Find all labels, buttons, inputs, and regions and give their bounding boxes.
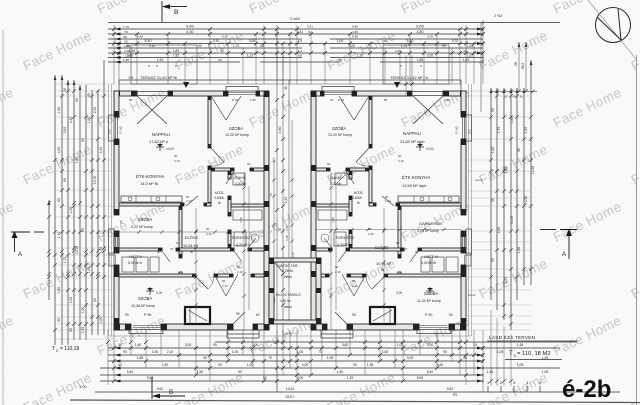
top band ticks xyxy=(112,27,116,31)
entry wc block xyxy=(185,307,210,324)
door swings xyxy=(211,148,224,162)
glazing triangle bottom szoba xyxy=(214,274,226,296)
window left nappali xyxy=(109,115,115,141)
eaves outline bottom xyxy=(109,335,227,337)
interior wall bath cluster vertical xyxy=(228,171,231,179)
section marker A right xyxy=(540,229,556,231)
interior chain right elosz xyxy=(383,208,385,322)
interior wall szoba922 right xyxy=(179,206,182,258)
big glazing triangles top szoba xyxy=(211,96,226,120)
right band horizontal extensions xyxy=(466,90,531,92)
window left hazth xyxy=(109,253,114,266)
north circle symbol xyxy=(596,8,631,43)
kitchen counter xyxy=(121,196,182,202)
terrace outline left xyxy=(131,45,197,84)
top dimension band lines xyxy=(108,22,560,24)
scale bar bottom right xyxy=(487,386,489,392)
window top P90 with sill xyxy=(226,87,258,92)
top-right corner chains xyxy=(480,23,482,113)
interior section chain right unit xyxy=(316,229,461,231)
left unit geometry xyxy=(109,87,270,339)
level mark nappali xyxy=(156,146,164,148)
outer wall: right (party side) xyxy=(264,91,269,330)
interior section chain left unit xyxy=(119,231,264,233)
outer wall: left xyxy=(114,91,119,117)
interior wall nappali/szoba divider xyxy=(208,96,211,148)
window bottom P90 with sill xyxy=(129,330,163,334)
interior wall wc/furdo divider xyxy=(231,204,264,207)
middle strip dimension chains xyxy=(276,30,278,392)
right-bottom chain verticals xyxy=(490,310,492,386)
eaves outline left xyxy=(108,84,110,336)
window left szoba922 xyxy=(109,229,115,255)
left band ticks xyxy=(47,201,51,205)
interior wall szoba1320 bottom xyxy=(211,168,234,171)
right unit (mirrored geometry about x=290) xyxy=(311,87,472,339)
outer wall: bottom xyxy=(114,324,131,330)
bottom band verticals xyxy=(107,330,109,385)
section marker A left xyxy=(11,231,30,233)
left band vertical lines xyxy=(48,200,50,300)
terrace outline right xyxy=(383,45,449,84)
bottom band horizontal lines xyxy=(215,341,577,343)
section marker B bottom xyxy=(151,377,153,399)
level mark bottom szoba xyxy=(146,290,154,292)
bath fixtures xyxy=(233,210,262,220)
terrace outline xyxy=(119,79,461,81)
entry porch steps xyxy=(227,329,259,331)
right edge guide lines xyxy=(636,55,638,405)
interior chain right pair xyxy=(330,172,332,330)
top-right small chain lines xyxy=(405,55,407,95)
bottom band row arrowheads xyxy=(115,347,121,350)
scan edge left xyxy=(2,30,4,405)
storage room between units xyxy=(269,258,274,324)
corner window with X (nappali) xyxy=(137,92,168,96)
interior chain left elosz xyxy=(195,208,197,322)
interior wall bottom-szoba top xyxy=(119,274,196,277)
top band row arrowheads xyxy=(115,28,121,31)
outer wall: top xyxy=(114,91,137,96)
interior wall kitchen bottom xyxy=(119,203,184,206)
closets hazth xyxy=(122,257,134,272)
interior wall szoba/hazth divider xyxy=(119,248,162,251)
scan noise overlay xyxy=(0,0,1,1)
section marker B top xyxy=(161,1,163,22)
top band verticals xyxy=(113,25,115,84)
top band end ticks xyxy=(482,21,484,25)
left band horizontal extensions xyxy=(55,83,114,85)
eaves outline right xyxy=(468,84,470,336)
interior chain left pair xyxy=(243,172,245,330)
left band arrowheads top xyxy=(48,200,51,205)
storage door xyxy=(274,262,283,272)
right band vertical lines xyxy=(490,88,492,300)
right band lower verticals xyxy=(490,250,492,332)
